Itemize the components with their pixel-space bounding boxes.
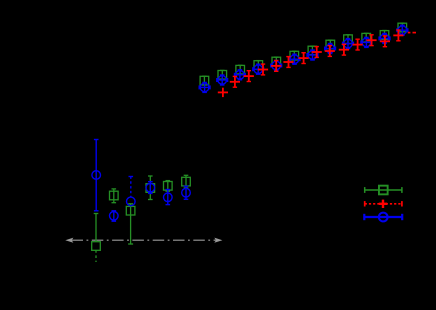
green square point 4 bbox=[146, 176, 155, 200]
red cross point 4 bbox=[258, 64, 268, 75]
reference dash-dot double arrow line bbox=[65, 238, 222, 243]
green square point 13 bbox=[308, 46, 317, 55]
blue circle point 2 bbox=[110, 211, 119, 221]
blue circle point 13 bbox=[307, 50, 318, 60]
blue circle point 4 bbox=[146, 182, 155, 194]
blue circle point 12 bbox=[289, 54, 300, 64]
green square point 18 bbox=[398, 23, 407, 32]
green square point 9 bbox=[236, 65, 245, 74]
blue circle point 3 bbox=[127, 177, 136, 206]
blue circle point 17 bbox=[379, 33, 390, 43]
legend entry: blue circles series bbox=[364, 213, 402, 222]
red cross point 12 bbox=[366, 35, 376, 46]
red cross point 2 bbox=[230, 76, 240, 87]
green square point 14 bbox=[326, 40, 335, 49]
red cross point 5 bbox=[271, 61, 281, 72]
green square point 7 bbox=[200, 76, 209, 85]
red cross point 7 bbox=[299, 53, 309, 64]
green square point 11 bbox=[272, 57, 281, 66]
red cross point 1 bbox=[218, 88, 228, 97]
blue circle point 15 bbox=[343, 39, 354, 49]
blue circle point 6 bbox=[182, 186, 191, 199]
red cross point 9 bbox=[325, 46, 335, 57]
green square point 12 bbox=[290, 51, 299, 60]
red cross point 10 bbox=[339, 44, 349, 55]
green square point 2 bbox=[110, 189, 119, 203]
green square point 8 bbox=[218, 70, 227, 79]
red cross point 3 bbox=[244, 71, 254, 82]
red cross point 8 bbox=[312, 47, 322, 58]
red point 15 dashed horizontal error bar bbox=[408, 32, 416, 34]
legend entry: red crosses series bbox=[365, 200, 402, 208]
blue circle point 8 bbox=[217, 75, 228, 85]
green square point 3 bbox=[126, 204, 135, 244]
green square point 10 bbox=[254, 61, 263, 70]
green square point 6 bbox=[182, 175, 191, 188]
blue circle point 14 bbox=[325, 44, 336, 54]
green square point 1 bbox=[92, 214, 101, 263]
red cross point 6 bbox=[283, 57, 293, 68]
green square point 5 bbox=[164, 181, 173, 192]
blue circle point 18 bbox=[397, 25, 408, 35]
green square point 16 bbox=[362, 33, 371, 42]
red cross point 14 bbox=[393, 30, 403, 41]
legend entry: green squares series bbox=[365, 186, 402, 195]
red cross point 11 bbox=[353, 39, 363, 50]
blue circle point 10 bbox=[253, 64, 264, 74]
blue circle point 9 bbox=[235, 70, 246, 80]
blue circle point 7 bbox=[199, 82, 210, 92]
blue circle point 11 bbox=[271, 61, 282, 71]
red cross point 13 bbox=[380, 36, 390, 47]
green square point 17 bbox=[380, 31, 389, 40]
blue circle point 5 bbox=[164, 190, 173, 205]
blue circle point 1 bbox=[92, 140, 101, 211]
green square point 15 bbox=[344, 35, 353, 44]
blue circle point 16 bbox=[361, 37, 372, 47]
